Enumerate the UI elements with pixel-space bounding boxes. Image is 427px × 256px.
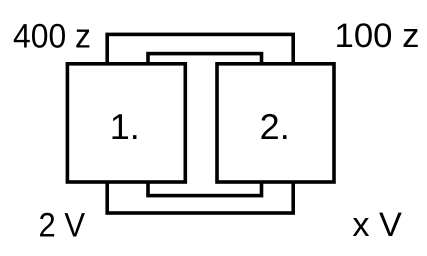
svg-text:1.: 1. [110,106,140,147]
svg-text:100 z: 100 z [335,17,420,55]
svg-text:400 z: 400 z [13,17,91,55]
svg-text:x V: x V [352,206,402,244]
svg-text:2.: 2. [260,106,290,147]
svg-text:2 V: 2 V [39,207,86,245]
